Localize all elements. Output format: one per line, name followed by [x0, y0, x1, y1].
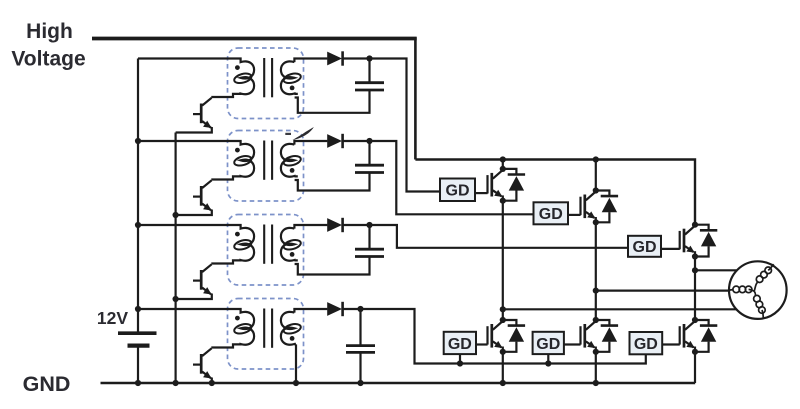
svg-text:12V: 12V	[97, 308, 128, 328]
svg-text:GD: GD	[539, 206, 563, 223]
svg-text:GND: GND	[23, 372, 71, 396]
svg-text:Voltage: Voltage	[11, 48, 85, 71]
svg-text:GD: GD	[446, 183, 470, 200]
svg-text:GD: GD	[536, 336, 560, 353]
svg-text:High: High	[26, 20, 73, 43]
svg-text:GD: GD	[633, 239, 657, 256]
svg-text:GD: GD	[448, 336, 472, 353]
svg-text:GD: GD	[634, 336, 658, 353]
